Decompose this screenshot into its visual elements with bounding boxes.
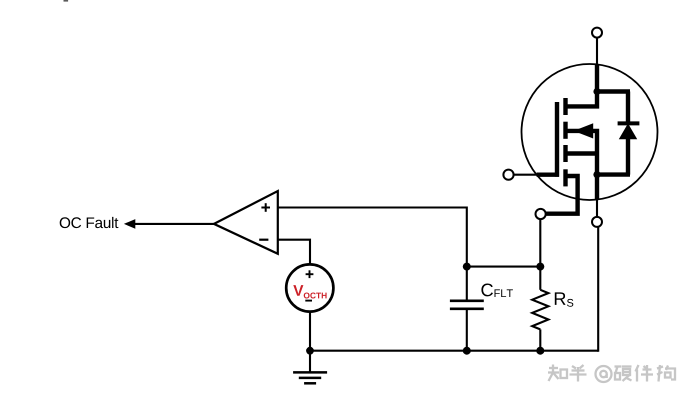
watermark char hu	[570, 365, 587, 382]
voltage source VOCTH	[286, 264, 333, 311]
watermark char zhi	[548, 365, 567, 382]
label RS	[555, 292, 574, 306]
wire output with arrowhead	[124, 219, 214, 229]
wire source to terminal	[596, 200, 598, 217]
watermark char ying	[615, 367, 632, 382]
wire kelvin terminal to RS	[539, 219, 541, 267]
terminal drain (open circle)	[592, 28, 602, 38]
MOSFET Q1 drain contact	[566, 92, 598, 107]
node drain junction	[593, 88, 600, 95]
MOSFET Q1 kelvin sense contact	[546, 176, 578, 214]
resistor RS	[532, 267, 548, 351]
watermark zhihu	[548, 365, 675, 383]
MOSFET Q1 enclosure circle	[522, 64, 658, 200]
node source junction	[593, 171, 600, 178]
node RS bottom	[536, 347, 544, 355]
wire source terminal to bottom wire	[597, 227, 599, 352]
watermark char at-sign	[596, 366, 612, 382]
label CFLT	[481, 284, 513, 298]
wire CFLT node to RS node	[467, 266, 541, 268]
wire inverting input to VOCTH	[278, 240, 310, 265]
MOSFET Q1 channel segments	[563, 98, 567, 186]
node CFLT top	[463, 263, 471, 271]
terminal gate (open circle)	[503, 170, 513, 180]
terminal source (open circle)	[592, 217, 602, 227]
MOSFET Q1 body contact with arrow	[566, 123, 598, 174]
watermark char gou	[657, 365, 675, 382]
wire VOCTH to ground node	[309, 312, 311, 351]
node VOCTH-ground junction	[306, 347, 314, 355]
bottom wire ground net	[310, 350, 598, 352]
watermark char jian	[636, 365, 654, 382]
wire diode bottom to source node	[595, 172, 630, 176]
cropped text remnant top edge	[64, 0, 69, 2]
wire drain terminal lead	[596, 38, 598, 66]
node RS top	[536, 263, 544, 271]
wire gate lead	[514, 174, 538, 176]
label OC Fault	[60, 217, 119, 228]
terminal kelvin source (open circle)	[536, 209, 546, 219]
MOSFET Q1 gate bar	[537, 102, 559, 177]
body diode D1	[618, 92, 640, 175]
MOSFET Q1 drain internal lead	[595, 65, 599, 92]
MOSFET Q1 source internal lead	[595, 175, 599, 200]
capacitor CFLT	[450, 301, 484, 351]
ground	[293, 351, 327, 384]
wire noninverting input to CFLT node	[278, 208, 467, 300]
MOSFET Q1 source contact	[566, 151, 598, 155]
node CFLT bottom	[463, 347, 471, 355]
op-amp U1 comparator	[214, 191, 278, 254]
wire drain node to diode	[595, 89, 630, 93]
